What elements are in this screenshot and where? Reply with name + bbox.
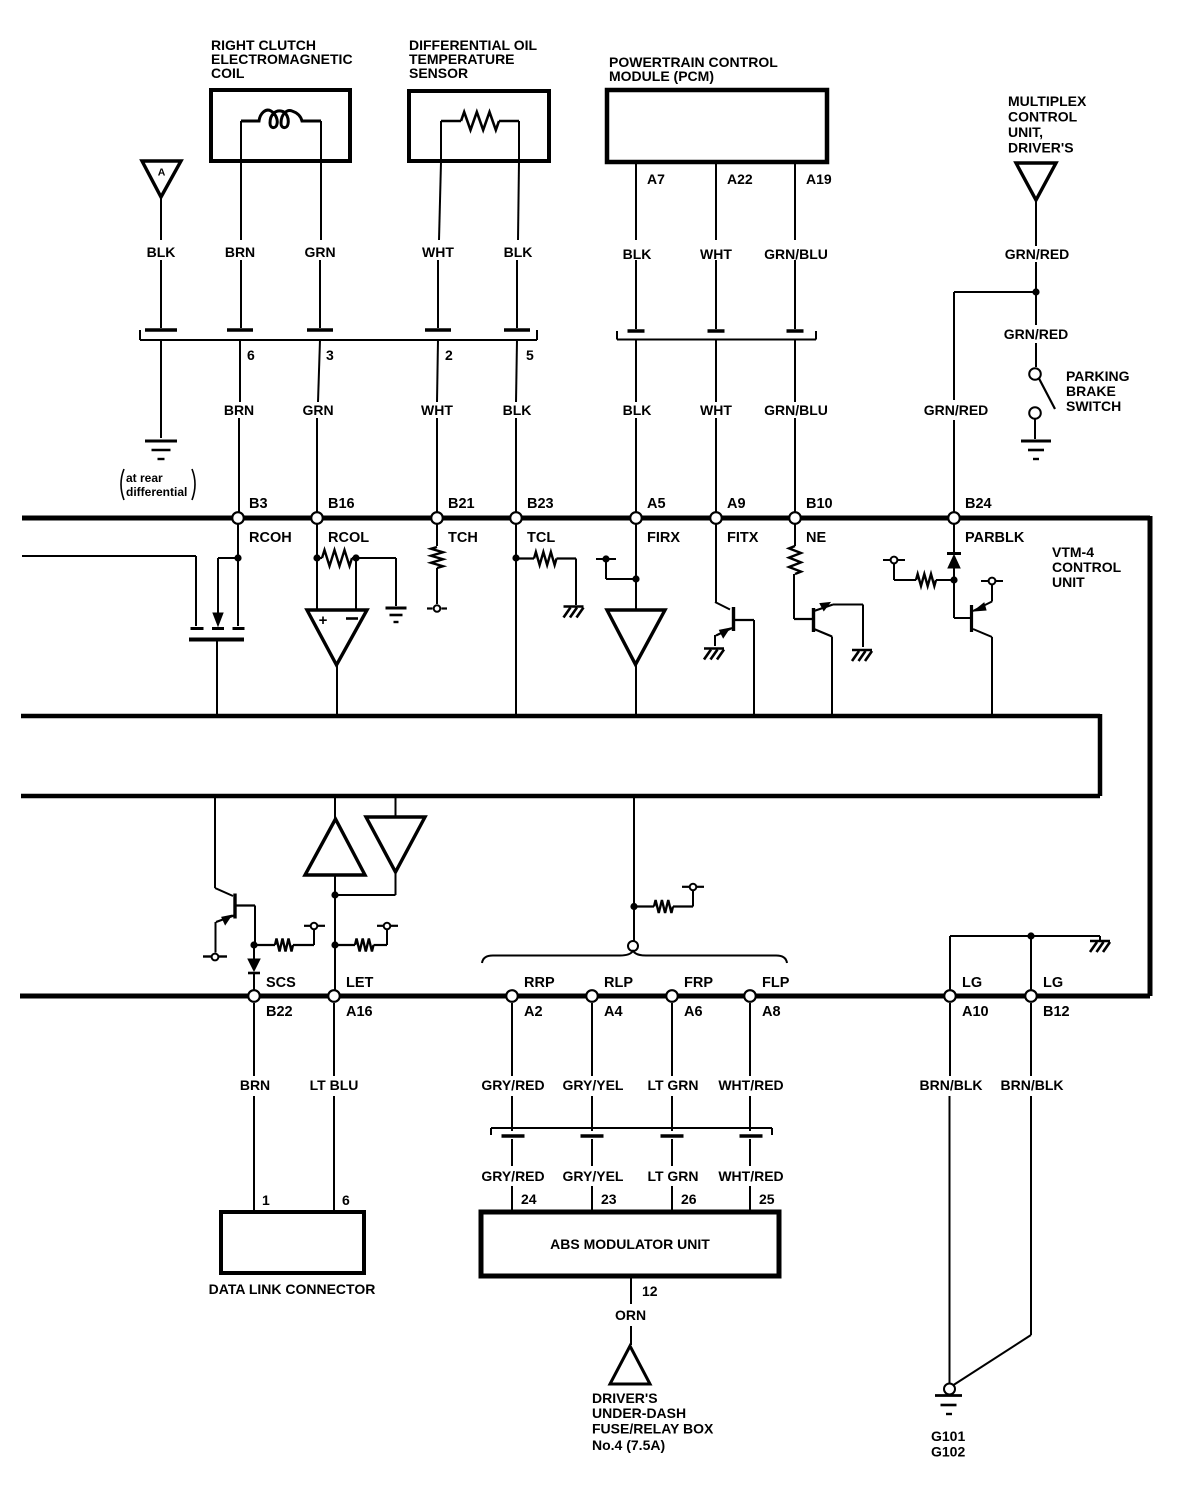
brace to RRP RLP FRP FLP (482, 951, 787, 963)
svg-text:B16: B16 (328, 496, 355, 512)
node FIRX lower junction (630, 903, 637, 910)
wire to test point (436, 568, 438, 604)
svg-text:FUSE/RELAY BOX: FUSE/RELAY BOX (592, 1421, 714, 1437)
svg-text:A22: A22 (727, 171, 753, 187)
terminal BLK pin 5 (504, 328, 530, 332)
wire to test point (893, 564, 895, 580)
terminal A22 wire (708, 329, 725, 333)
svg-text:GRN: GRN (304, 244, 335, 260)
svg-text:BRN/BLK: BRN/BLK (1001, 1077, 1064, 1093)
wire NE from B10 (794, 524, 796, 546)
svg-text:26: 26 (681, 1191, 697, 1207)
wire WHT to B21 (437, 340, 438, 402)
svg-text:RCOH: RCOH (249, 530, 292, 546)
svg-text:SENSOR: SENSOR (409, 65, 468, 81)
ground at rear differential (145, 440, 177, 443)
pin A9 / FITX (710, 512, 722, 524)
pin LG / B12 (1025, 990, 1037, 1002)
resistor R7 LET (335, 944, 355, 946)
terminal A19 wire (787, 329, 804, 333)
transistor Q1 RCOH driver (195, 556, 197, 626)
wire BRN/BLK from B12 (1030, 1003, 1032, 1076)
op-amp U1 inputs (316, 558, 318, 609)
svg-text:5: 5 (526, 347, 534, 363)
wire GRY/RED from pin (511, 1003, 513, 1076)
svg-text:WHT/RED: WHT/RED (718, 1077, 783, 1093)
differential oil temperature sensor box (409, 91, 549, 161)
pin LG / A10 (944, 990, 956, 1002)
wire Q5 collector down (254, 906, 256, 944)
svg-text:NE: NE (806, 530, 826, 546)
svg-text:B23: B23 (527, 496, 554, 512)
svg-text:GRY/YEL: GRY/YEL (563, 1168, 624, 1184)
wire switch to ground (1034, 419, 1036, 439)
transistor Q4 PARBLK (953, 580, 955, 618)
ground at op-amp (386, 607, 407, 610)
wire TCL from B23 to bus (515, 524, 517, 714)
pin B23 / TCL (510, 512, 522, 524)
node PARBLK junction (950, 576, 957, 583)
wire Q2 collector to bus (753, 620, 755, 714)
svg-text:G101: G101 (931, 1428, 965, 1444)
wire to ground (356, 557, 396, 559)
svg-text:No.4 (7.5A): No.4 (7.5A) (592, 1437, 665, 1453)
svg-text:differential: differential (126, 485, 187, 499)
wire buffer output to bus (635, 664, 637, 714)
svg-text:LG: LG (1043, 975, 1063, 991)
resistor R4 NE (789, 546, 801, 574)
wire Q4 collector to bus (973, 629, 992, 637)
pin RRP / A2 (506, 990, 518, 1002)
svg-text:BRAKE: BRAKE (1066, 383, 1116, 399)
pin B3 / RCOH (232, 512, 244, 524)
svg-text:RLP: RLP (604, 975, 633, 991)
svg-text:RRP: RRP (524, 975, 555, 991)
pin LET / A16 (328, 990, 340, 1002)
svg-text:GRN: GRN (302, 402, 333, 418)
svg-text:BLK: BLK (504, 244, 533, 260)
svg-text:GRY/YEL: GRY/YEL (563, 1077, 624, 1093)
wire to Q5 (214, 798, 216, 888)
terminal BRN pin 6 (227, 328, 253, 332)
svg-text:BRN/BLK: BRN/BLK (920, 1077, 983, 1093)
right clutch electromagnetic coil box (211, 90, 350, 161)
buffer U3 up triangle (305, 819, 365, 875)
svg-text:UNIT: UNIT (1052, 574, 1085, 590)
wire U4 output (395, 872, 397, 895)
svg-text:BRN: BRN (225, 244, 255, 260)
svg-text:A8: A8 (762, 1004, 781, 1020)
svg-text:FLP: FLP (762, 975, 790, 991)
wire PARBLK from B24 (953, 524, 955, 553)
terminal GRY/YEL (581, 1134, 604, 1138)
svg-text:GRY/RED: GRY/RED (481, 1168, 544, 1184)
test point SCS (311, 923, 318, 930)
svg-text:LT BLU: LT BLU (310, 1077, 359, 1093)
junction node GRN/RED (1032, 288, 1039, 295)
wire BLK to ground (160, 340, 162, 438)
wire to chassis ground (1099, 936, 1101, 940)
svg-text:TCL: TCL (527, 530, 555, 546)
svg-text:12: 12 (642, 1283, 658, 1299)
data link connector box (221, 1212, 364, 1273)
wire BLK from sensor (518, 161, 519, 240)
pin B16 / RCOL (311, 512, 323, 524)
wire to test point (313, 930, 315, 945)
svg-text:24: 24 (521, 1191, 537, 1207)
svg-text:A: A (158, 167, 166, 179)
svg-text:1: 1 (262, 1192, 270, 1208)
node LET junction top (331, 891, 338, 898)
wire BLK to B23 (516, 340, 517, 402)
ABS modulator unit box (481, 1212, 779, 1276)
internal bus bar right edge (1098, 714, 1103, 796)
svg-text:DATA LINK CONNECTOR: DATA LINK CONNECTOR (209, 1281, 376, 1297)
pin B21 / TCH (431, 512, 443, 524)
svg-text:BLK: BLK (147, 244, 176, 260)
transistor Q2 FITX (715, 602, 730, 610)
svg-text:LT GRN: LT GRN (647, 1077, 698, 1093)
pin A5 / FIRX (630, 512, 642, 524)
svg-text:FRP: FRP (684, 975, 713, 991)
wire Q3 collector to bus (814, 629, 832, 637)
test point Q5 emitter (212, 954, 219, 961)
internal bus bar bottom (21, 794, 1100, 799)
resistor R5 PARBLK (936, 579, 954, 581)
svg-text:2: 2 (445, 347, 453, 363)
svg-text:A7: A7 (647, 171, 665, 187)
svg-text:GRN/RED: GRN/RED (1005, 246, 1070, 262)
wire GRN/BLU from PCM A19 (794, 162, 796, 240)
resistor R1 RCOL feedback (317, 557, 322, 559)
node TCL junction (512, 554, 519, 561)
wire BLK from connector A (160, 198, 162, 240)
chassis ground TCL (564, 605, 584, 608)
internal bus bar top (21, 714, 1100, 719)
terminal WHT pin 2 (425, 328, 451, 332)
svg-text:GRN/BLU: GRN/BLU (764, 246, 828, 262)
svg-text:BLK: BLK (623, 402, 652, 418)
svg-text:GRY/RED: GRY/RED (481, 1077, 544, 1093)
test point TCH (434, 605, 441, 612)
diode D1 PARBLK (947, 552, 961, 555)
pin SCS / B22 (248, 990, 260, 1002)
wire coil left lead BRN (240, 121, 242, 162)
svg-text:CONTROL: CONTROL (1052, 559, 1122, 575)
wire diagonal to ground point (954, 1335, 1032, 1385)
wire GRN/BLU to B10 (794, 339, 796, 402)
wire WHT to A9 (715, 339, 717, 402)
wire op-amp output to bus (336, 665, 338, 714)
svg-text:A5: A5 (647, 496, 666, 512)
pin FRP / A6 (666, 990, 678, 1002)
svg-text:PARKING: PARKING (1066, 368, 1130, 384)
wire BRN to B3 (239, 340, 241, 402)
wire WHT from sensor (439, 162, 441, 240)
svg-text:BRN: BRN (240, 1077, 270, 1093)
wire BLK to A5 (635, 339, 637, 402)
svg-text:ORN: ORN (615, 1307, 646, 1323)
svg-text:+: + (319, 612, 328, 629)
svg-text:DRIVER'S: DRIVER'S (1008, 140, 1074, 156)
svg-text:B10: B10 (806, 496, 833, 512)
thermistor R-sensor (441, 120, 461, 122)
VTM-4 control unit bottom edge (20, 994, 1150, 999)
svg-text:LG: LG (962, 975, 982, 991)
wire BRN from B22 (253, 1003, 255, 1076)
terminal LT GRN (661, 1134, 684, 1138)
svg-text:VTM-4: VTM-4 (1052, 544, 1094, 560)
test point right (989, 578, 996, 585)
svg-text:at rear: at rear (126, 471, 163, 485)
wire GRN/RED from multiplex unit (1035, 200, 1037, 246)
wire LT GRN from pin (671, 1003, 673, 1076)
chassis ground FITX emitter (704, 647, 724, 650)
wire to buffer U3 (334, 798, 336, 820)
svg-text:PARBLK: PARBLK (965, 530, 1025, 546)
svg-text:A6: A6 (684, 1004, 703, 1020)
wire RCOL from B16 (316, 524, 318, 556)
svg-text:FIRX: FIRX (647, 530, 680, 546)
VTM-4 control unit right edge (1148, 516, 1153, 996)
wire RCOH from B3 (237, 524, 239, 557)
pin RLP / A4 (586, 990, 598, 1002)
wire LT BLU from A16 (333, 1003, 335, 1076)
terminal A7 wire (628, 329, 645, 333)
diode D2 SCS (248, 959, 260, 971)
wire to chassis ground (575, 559, 577, 606)
wire BLK from PCM A7 (635, 162, 637, 240)
wire BRN/BLK from A10 (949, 1003, 951, 1076)
node SCS junction (250, 941, 257, 948)
node LET junction (331, 941, 338, 948)
node RCOH junction (234, 554, 241, 561)
terminal GRY/RED (502, 1134, 525, 1138)
svg-text:WHT: WHT (422, 244, 454, 260)
svg-text:RCOL: RCOL (328, 530, 369, 546)
svg-text:UNDER-DASH: UNDER-DASH (592, 1405, 686, 1421)
wire LET to pin (334, 945, 336, 990)
svg-text:TCH: TCH (448, 530, 478, 546)
multiplex control unit triangle (1016, 163, 1056, 200)
ground terminal ring (944, 1384, 955, 1395)
wire sensor left lead WHT (440, 121, 442, 161)
wire to test point (386, 930, 388, 945)
op-amp U1 (307, 610, 367, 665)
svg-text:B21: B21 (448, 496, 475, 512)
svg-text:GRN/RED: GRN/RED (924, 402, 989, 418)
svg-text:MODULE (PCM): MODULE (PCM) (609, 68, 714, 84)
svg-text:23: 23 (601, 1191, 617, 1207)
LG tie bar (950, 935, 1100, 937)
solenoid common terminal (628, 941, 638, 951)
buffer U4 down triangle (366, 817, 425, 872)
chassis ground NE (852, 649, 872, 652)
wire FIRX lower (633, 798, 635, 903)
svg-text:B24: B24 (965, 496, 992, 512)
parking brake switch (1029, 368, 1041, 380)
wire GRN to B16 (318, 340, 320, 402)
svg-text:25: 25 (759, 1191, 775, 1207)
test point R8 (690, 884, 697, 891)
node LG junction (1027, 932, 1034, 939)
node resistor right junction (352, 554, 359, 561)
wire sensor right lead BLK (518, 121, 520, 161)
ABS inline connector bracket (491, 1127, 772, 1129)
svg-text:WHT: WHT (421, 402, 453, 418)
svg-text:G102: G102 (931, 1444, 965, 1460)
PCM inline connector bracket (617, 339, 816, 341)
svg-text:6: 6 (247, 347, 255, 363)
svg-text:ABS MODULATOR UNIT: ABS MODULATOR UNIT (550, 1236, 710, 1252)
chassis ground LG (1090, 940, 1110, 943)
inline connector bracket (140, 339, 537, 341)
svg-text:LT GRN: LT GRN (647, 1168, 698, 1184)
svg-text:UNIT,: UNIT, (1008, 124, 1043, 140)
terminal BLK (145, 328, 177, 332)
svg-text:MULTIPLEX: MULTIPLEX (1008, 93, 1087, 109)
pin B24 / PARBLK (948, 512, 960, 524)
wire to test point (692, 891, 694, 907)
resistor R8 (634, 905, 654, 907)
wire gate feed line (22, 555, 196, 557)
test point LET (384, 923, 391, 930)
svg-text:WHT/RED: WHT/RED (718, 1168, 783, 1184)
wire LET down (334, 895, 336, 943)
connector A triangle (142, 161, 181, 197)
svg-text:SCS: SCS (266, 975, 296, 991)
fuse box triangle (610, 1346, 650, 1384)
VTM-4 control unit top bus (22, 516, 1150, 521)
wire branch to B24 (954, 291, 1036, 293)
svg-text:DRIVER'S: DRIVER'S (592, 1390, 658, 1406)
wire GRN from coil (320, 162, 322, 240)
svg-text:6: 6 (342, 1192, 350, 1208)
svg-text:CONTROL: CONTROL (1008, 109, 1078, 125)
wire GRN/RED to parking brake switch (1035, 292, 1037, 325)
wire FIRX from A5 (635, 524, 637, 610)
svg-text:LET: LET (346, 975, 374, 991)
wire U3 output (334, 874, 336, 893)
svg-text:A16: A16 (346, 1004, 373, 1020)
svg-text:WHT: WHT (700, 246, 732, 262)
svg-text:A19: A19 (806, 171, 832, 187)
svg-text:GRN/BLU: GRN/BLU (764, 402, 828, 418)
terminal GRN pin 3 (307, 328, 333, 332)
wire TCH from B21 (436, 524, 438, 546)
svg-text:BRN: BRN (224, 402, 254, 418)
ground G101 G102 (935, 1394, 962, 1397)
pin 12 wire ORN (630, 1277, 632, 1304)
wire Q1 output to bus (216, 641, 218, 714)
test point left (891, 557, 898, 564)
wire WHT from PCM A22 (715, 162, 717, 240)
buffer U2 FIRX (607, 610, 665, 665)
svg-text:COIL: COIL (211, 65, 245, 81)
svg-text:A4: A4 (604, 1004, 623, 1020)
terminal WHT/RED (740, 1134, 763, 1138)
svg-text:A10: A10 (962, 1004, 989, 1020)
wire WHT/RED from pin (749, 1003, 751, 1076)
resistor R6 SCS (254, 944, 275, 946)
svg-text:FITX: FITX (727, 530, 759, 546)
svg-text:B3: B3 (249, 496, 268, 512)
wire FITX from A9 (715, 524, 717, 602)
svg-text:BLK: BLK (623, 246, 652, 262)
node FIRX junction (632, 575, 639, 582)
resistor R3 TCL (516, 557, 534, 559)
svg-text:WHT: WHT (700, 402, 732, 418)
svg-text:B12: B12 (1043, 1004, 1070, 1020)
svg-text:BLK: BLK (503, 402, 532, 418)
powertrain control module box (607, 90, 827, 162)
node RCOL junction (313, 554, 320, 561)
pin B10 / NE (789, 512, 801, 524)
wire to solenoid common (633, 907, 635, 942)
svg-text:SWITCH: SWITCH (1066, 398, 1121, 414)
svg-text:A9: A9 (727, 496, 746, 512)
ground below parking brake switch (1021, 440, 1051, 443)
svg-text:3: 3 (326, 347, 334, 363)
svg-text:GRN/RED: GRN/RED (1004, 326, 1069, 342)
inductor coil L1 (241, 110, 321, 128)
svg-text:B22: B22 (266, 1004, 293, 1020)
bias stub with junction (596, 558, 616, 560)
transistor Q3 NE (793, 574, 795, 619)
svg-text:A2: A2 (524, 1004, 543, 1020)
resistor R2 TCH (431, 547, 443, 568)
wire BRN from coil (240, 162, 242, 240)
wire to buffer U4 (395, 798, 397, 817)
transistor Q5 SCS driver (215, 888, 233, 896)
pin FLP / A8 (744, 990, 756, 1002)
wire coil right lead GRN (320, 121, 322, 162)
wire GRY/YEL from pin (591, 1003, 593, 1076)
